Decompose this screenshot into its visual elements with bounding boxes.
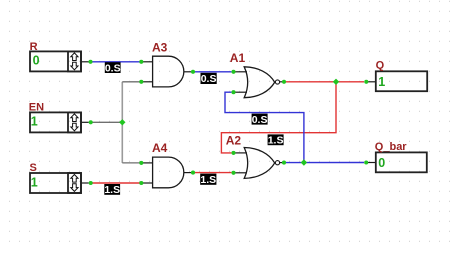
input S spinner up arrow <box>71 175 78 183</box>
net label 0.S on A3 output wire <box>201 73 217 85</box>
input EN spinner up arrow <box>71 114 78 122</box>
svg-text:1.S: 1.S <box>200 174 216 186</box>
input EN box <box>30 112 81 132</box>
wire A3 input a pin <box>141 61 152 63</box>
node A2 input a dot <box>231 151 235 155</box>
wire R output pin <box>81 61 89 63</box>
node A1 input b dot <box>231 90 235 94</box>
label R <box>30 41 38 53</box>
svg-text:A2: A2 <box>226 134 242 148</box>
wire A4 input b pin <box>141 182 152 184</box>
net label 1.S on S wire <box>104 184 120 196</box>
node Qbar junction diamond <box>301 159 307 165</box>
node A1 output dot <box>282 80 286 84</box>
node A3 input a dot <box>139 60 143 64</box>
svg-text:0.S: 0.S <box>105 62 121 74</box>
wire Q_bar input pin <box>366 162 376 164</box>
input EN spinner down arrow <box>71 123 78 131</box>
wire EN output pin <box>81 121 89 123</box>
wire A4 input a pin <box>141 162 152 164</box>
value Q_bar = 0 <box>378 156 385 170</box>
output Q box <box>376 71 427 91</box>
wire A2 input a pin <box>234 152 248 154</box>
net label 0.S on Qbar feedback wire <box>252 114 268 126</box>
label A1 <box>230 51 246 65</box>
input S spinner down arrow <box>71 184 78 192</box>
svg-text:0: 0 <box>378 156 385 170</box>
net label 0.S on R wire <box>105 62 121 74</box>
svg-text:Q: Q <box>376 60 385 72</box>
wire A2 output pin <box>280 162 282 164</box>
node Q_bar input dot <box>364 160 368 164</box>
svg-text:1: 1 <box>378 75 385 89</box>
nor-gate A2 body <box>244 148 275 179</box>
node R wire dot <box>88 60 92 64</box>
label A3 <box>152 41 168 55</box>
wire net R (blue, R to A3 input a) <box>91 61 141 63</box>
wire A1 input a pin <box>234 71 248 73</box>
and-gate A3 body <box>153 56 184 87</box>
input R box <box>30 51 81 71</box>
svg-text:A3: A3 <box>152 41 168 55</box>
wire net EN to A4 input a (gray) <box>122 162 141 164</box>
svg-text:1.S: 1.S <box>104 184 120 196</box>
node EN wire dot <box>89 120 93 124</box>
label A4 <box>152 141 168 155</box>
label Q <box>376 60 385 72</box>
value R = 0 <box>33 53 40 67</box>
node A3 input b dot <box>139 80 143 84</box>
nor-gate A2 bubble <box>275 161 279 165</box>
svg-text:0.S: 0.S <box>201 73 217 85</box>
node A2 input b dot <box>231 171 235 175</box>
label Q_bar <box>375 141 408 153</box>
wire net S (red, S to A4 input b) <box>91 182 141 184</box>
svg-text:A1: A1 <box>230 51 246 65</box>
wire net EN to A3 input b (gray) <box>122 81 141 83</box>
wire A4 output pin <box>184 172 191 174</box>
wire net A3.out (blue, to A1 input a) <box>193 71 231 73</box>
node A4 output dot <box>191 171 195 175</box>
input S box <box>30 173 81 193</box>
svg-text:A4: A4 <box>152 141 168 155</box>
wire net Q (red, A1 out to Q box) <box>286 81 364 83</box>
label A2 <box>226 134 242 148</box>
net label 1.S on Q feedback wire <box>268 134 284 146</box>
input R spinner up arrow <box>71 53 78 61</box>
wire net A4.out (red, to A2 input b) <box>193 172 231 174</box>
wire Q input pin <box>366 81 376 83</box>
svg-text:1: 1 <box>31 115 38 129</box>
svg-text:1: 1 <box>31 175 38 189</box>
label EN <box>29 102 44 114</box>
wire A1 input b pin <box>234 91 248 93</box>
input R spinner down arrow <box>71 62 78 70</box>
wire net EN vertical branch (gray) <box>121 82 123 163</box>
value Q = 1 <box>378 75 385 89</box>
node S wire dot <box>89 181 93 185</box>
node A4 input b dot <box>139 181 143 185</box>
node A1 input a dot <box>231 70 235 74</box>
value EN = 1 <box>31 115 38 129</box>
nor-gate A1 bubble <box>275 80 279 84</box>
svg-text:R: R <box>30 41 38 53</box>
output Q_bar box <box>376 152 427 172</box>
node A4 input a dot <box>139 161 143 165</box>
node Q junction diamond <box>333 79 339 85</box>
node EN junction diamond <box>119 119 125 125</box>
wire A3 input b pin <box>141 81 152 83</box>
wire net Q feedback branch (red, junction down-left to A2 input a) <box>221 82 336 153</box>
wire A3 output pin <box>184 71 191 73</box>
svg-text:0.S: 0.S <box>252 114 268 126</box>
nor-gate A1 body <box>244 67 275 98</box>
wire net Qbar (blue, A2 out to Q_bar box) <box>286 162 364 164</box>
node Q input dot <box>364 80 368 84</box>
node A3 output dot <box>191 70 195 74</box>
wire net EN horizontal (gray) <box>91 121 123 123</box>
svg-text:0: 0 <box>33 53 40 67</box>
svg-text:EN: EN <box>29 102 44 114</box>
label S <box>30 162 37 174</box>
node A2 output dot <box>282 161 286 165</box>
net label 1.S on A4 output wire <box>200 174 216 186</box>
and-gate A4 body <box>153 157 184 188</box>
wire A1 output pin <box>280 81 282 83</box>
wire net Qbar feedback branch (blue, junction up-left to A1 input b) <box>225 92 304 162</box>
svg-text:Q_bar: Q_bar <box>375 141 408 153</box>
wire A2 input b pin <box>234 172 248 174</box>
svg-text:S: S <box>30 162 37 174</box>
wire S output pin <box>81 182 89 184</box>
svg-text:1.S: 1.S <box>268 135 284 147</box>
value S = 1 <box>31 175 38 189</box>
